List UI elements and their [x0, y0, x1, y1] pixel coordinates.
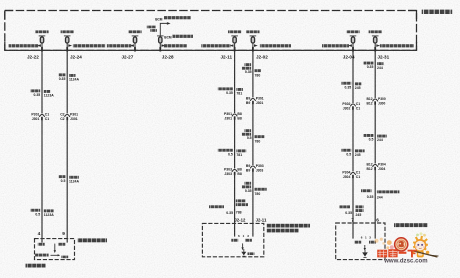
BCM box corner reinforcements — [5, 10, 13, 12]
left front door window/lock/mirror switch assembly box — [202, 223, 263, 256]
pin J2-04 at box edge — [352, 47, 354, 52]
label wire 黄色 0.5 左前门 1124A — [59, 175, 66, 178]
switch common arrow — [364, 245, 366, 249]
wire J2-02 to switch assembly (red/black 780) — [252, 52, 254, 224]
inline connector P301/J301 B8 — [233, 113, 236, 118]
label 锁芯开关 — [35, 254, 49, 257]
label 门锁接地 — [26, 264, 47, 268]
pin J2-22 at box edge — [41, 47, 43, 52]
BCM output driver column J2-04 — [346, 30, 359, 33]
inline connector B9 P303/J303 — [251, 165, 254, 170]
label wire 红色/黑色 0.35 车身 780 — [245, 63, 252, 66]
label wire 黄色 0.35 车身 1124A — [59, 73, 66, 76]
label wire 深蓝色 0.5 右前门 245 — [341, 149, 351, 152]
label /后视镜开关总成 — [267, 229, 299, 233]
label 上锁 — [369, 241, 376, 244]
label wire 深蓝色 0.35 车身 245 — [341, 82, 351, 85]
label wire 橙色/黑色 0.5 右前门 781 — [218, 149, 233, 152]
BCM output driver column J2-22 — [35, 30, 48, 33]
wire stub to unlock contact — [352, 223, 354, 239]
inline connector P301/J301 C1 — [41, 114, 44, 119]
inline connector P302/J302 C1 — [352, 103, 355, 108]
watermark mascot sun figure — [411, 232, 429, 257]
BCM battery voltage branch arrow at J2-28 — [160, 23, 167, 36]
inline connector P303/J303 B8 — [233, 169, 236, 174]
label BCM title 车身控制模块 — [422, 10, 453, 14]
label wire 浅蓝色 0.35 右前门门锁模块 244 — [361, 189, 372, 192]
wire J2-04 to right door switch (dark blue 245) — [352, 52, 354, 224]
label wire 浅蓝色 0.5 右前门 244 — [364, 134, 374, 137]
wire stub to unlock contact — [234, 223, 236, 236]
ground symbol — [243, 249, 245, 252]
label wire 浅蓝色 0.35 车身 1123A — [30, 89, 40, 92]
wire J2-31 to right door switch (light blue 244) — [374, 52, 376, 224]
label 上锁 — [38, 243, 45, 246]
right front door lock switch assembly box — [336, 223, 385, 260]
label wire 浅蓝色 0.5 左前门 1123A — [30, 209, 40, 212]
label 右前门锁开关总成 — [394, 223, 428, 227]
wire J2-24 to left door lock (yellow 1124A) — [66, 52, 68, 239]
signal name label for J2-24 — [73, 44, 105, 47]
label 解锁 — [58, 243, 65, 246]
signal name label for J2-22 — [9, 44, 39, 47]
wire stub to lock contact — [374, 223, 376, 239]
wire stub into pin 4 — [41, 239, 43, 243]
watermark text 维库一下 — [377, 249, 417, 257]
label 接地 — [248, 252, 255, 255]
label wire 橙色/黑色 0.35 车身 781 — [218, 87, 233, 90]
BCM output driver column J2-24 — [61, 30, 74, 33]
inline connector B9 P301/J301 — [251, 98, 254, 103]
switch arrow inside door lock — [54, 244, 56, 251]
wire J2-22 to left door lock (light blue 1123A) — [41, 52, 43, 239]
pin J2-11 at box edge — [234, 47, 236, 52]
watermark decorative flowers — [375, 238, 386, 245]
label wire 红色/黑色 0.5 右前门 780 — [245, 129, 252, 132]
label wire 浅蓝色 0.35 车身 244 — [364, 62, 374, 65]
label wire 深蓝色 0.35 右前门 门锁模块 245 — [340, 205, 351, 208]
BCM output driver column J2-02 — [246, 30, 259, 33]
BCM body control module box — [5, 11, 417, 51]
wire stub into pin 9 — [66, 239, 68, 243]
pin J2-31 at box edge — [374, 47, 376, 52]
signal name label for J2-04 — [322, 44, 349, 47]
inline connector B12 P300/J300 — [374, 98, 377, 103]
label 接地 — [61, 256, 68, 259]
label 上锁 — [245, 239, 252, 242]
switch common arrow — [242, 243, 244, 247]
watermark red seal — [395, 238, 408, 251]
wire stub to lock contact — [252, 223, 254, 236]
wire J2-11 to switch assembly (orange/black 781) — [234, 52, 236, 224]
signal name label for J2-31 — [380, 44, 414, 47]
pin J2-28 at box edge — [159, 47, 161, 52]
label 解锁 — [354, 241, 361, 244]
pin J2-02 at box edge — [252, 47, 254, 52]
label 解锁 — [231, 239, 238, 242]
BCM output driver column J2-31 — [369, 30, 382, 33]
ground symbol — [364, 250, 366, 252]
BCM output driver column J2-11 — [228, 30, 241, 33]
pin J2-24 at box edge — [66, 47, 68, 52]
inline connector B12 P304/J304 — [374, 164, 377, 169]
inline connector C2 P301/J301 — [66, 114, 69, 119]
label 左前门电动车窗/门锁 — [267, 224, 311, 228]
pin J2-27 at box edge — [134, 47, 136, 52]
signal name label for J2-28 — [164, 44, 187, 47]
BCM output driver column J2-27 — [128, 30, 141, 33]
signal name label for J2-27 — [107, 44, 131, 47]
signal name label for J2-11 — [201, 44, 230, 47]
signal name label for J2-02 — [260, 44, 291, 47]
label wire 红色/黑色 0.35 左前门 780 — [245, 182, 252, 185]
label 左前门门锁总成 — [78, 238, 108, 242]
left front door lock assembly box — [35, 239, 75, 260]
BCM output driver column J2-28 — [147, 26, 156, 29]
watermark magnifier wand — [411, 250, 438, 257]
inline connector P304/J304 C1 — [352, 172, 355, 177]
label wire 橙色/黑色 0.35 左前门 玻璃模块 788 — [209, 205, 224, 208]
